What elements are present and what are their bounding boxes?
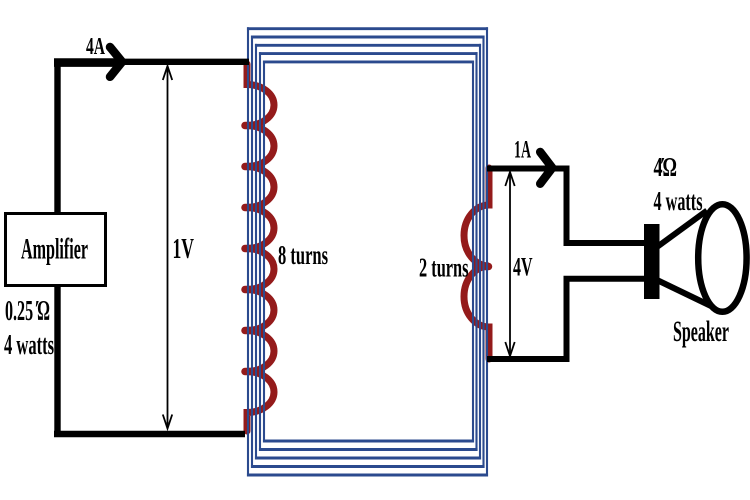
voltage arrow 1V (double-headed measuring arrow) [163, 66, 172, 429]
wire: left vertical, top wire down to amplifier box [54, 59, 60, 212]
wire: thicker overlapping segment from corner to 4A arrow [54, 58, 114, 67]
svg-text:0.25 Ώ: 0.25 Ώ [5, 296, 50, 327]
svg-text:8 turns: 8 turns [278, 240, 328, 270]
svg-text:2 turns: 2 turns [419, 253, 469, 283]
amplifier box [6, 214, 106, 286]
svg-text:1V: 1V [173, 234, 195, 265]
svg-text:4A: 4A [86, 34, 105, 60]
secondary coil L2 (2 turns, dark red) [464, 168, 489, 359]
wire: left vertical, amplifier box down to bottom wire [54, 287, 60, 437]
primary coil L1 (8 turns, dark red) [245, 64, 274, 431]
speaker cone upper line [657, 211, 707, 248]
current arrow on top primary wire [110, 47, 122, 77]
svg-text:Speaker: Speaker [673, 315, 729, 348]
svg-text:Amplifier: Amplifier [21, 233, 88, 266]
wire: secondary top to the right (top horizontal) [487, 166, 567, 172]
current arrow on secondary top wire [540, 152, 552, 184]
transformer core T1 (laminated core, 5 nested blue rectangles) [247, 27, 488, 476]
wire: right vertical up from secondary bottom [564, 279, 570, 362]
wire: horizontal into speaker terminal (lower) [564, 276, 646, 282]
speaker diaphragm (ellipse) [698, 204, 746, 312]
svg-text:4 watts: 4 watts [654, 186, 703, 216]
wire: horizontal into speaker terminal (upper) [564, 240, 646, 246]
wire: secondary bottom horizontal [487, 356, 567, 362]
svg-text:4 watts: 4 watts [4, 330, 54, 361]
speaker cone lower line [657, 280, 711, 306]
wire: bottom horizontal, amplifier to primary coil bottom [54, 431, 245, 437]
wire: right vertical down from secondary top [564, 166, 570, 244]
svg-text:1A: 1A [514, 137, 531, 164]
wire: amplifier top terminal to primary coil (top horizontal) [54, 59, 249, 65]
voltage arrow 4V (double-headed measuring arrow) [505, 172, 514, 356]
svg-text:4Ώ: 4Ώ [654, 152, 678, 182]
speaker terminal block [644, 224, 660, 299]
svg-text:4V: 4V [513, 253, 533, 282]
